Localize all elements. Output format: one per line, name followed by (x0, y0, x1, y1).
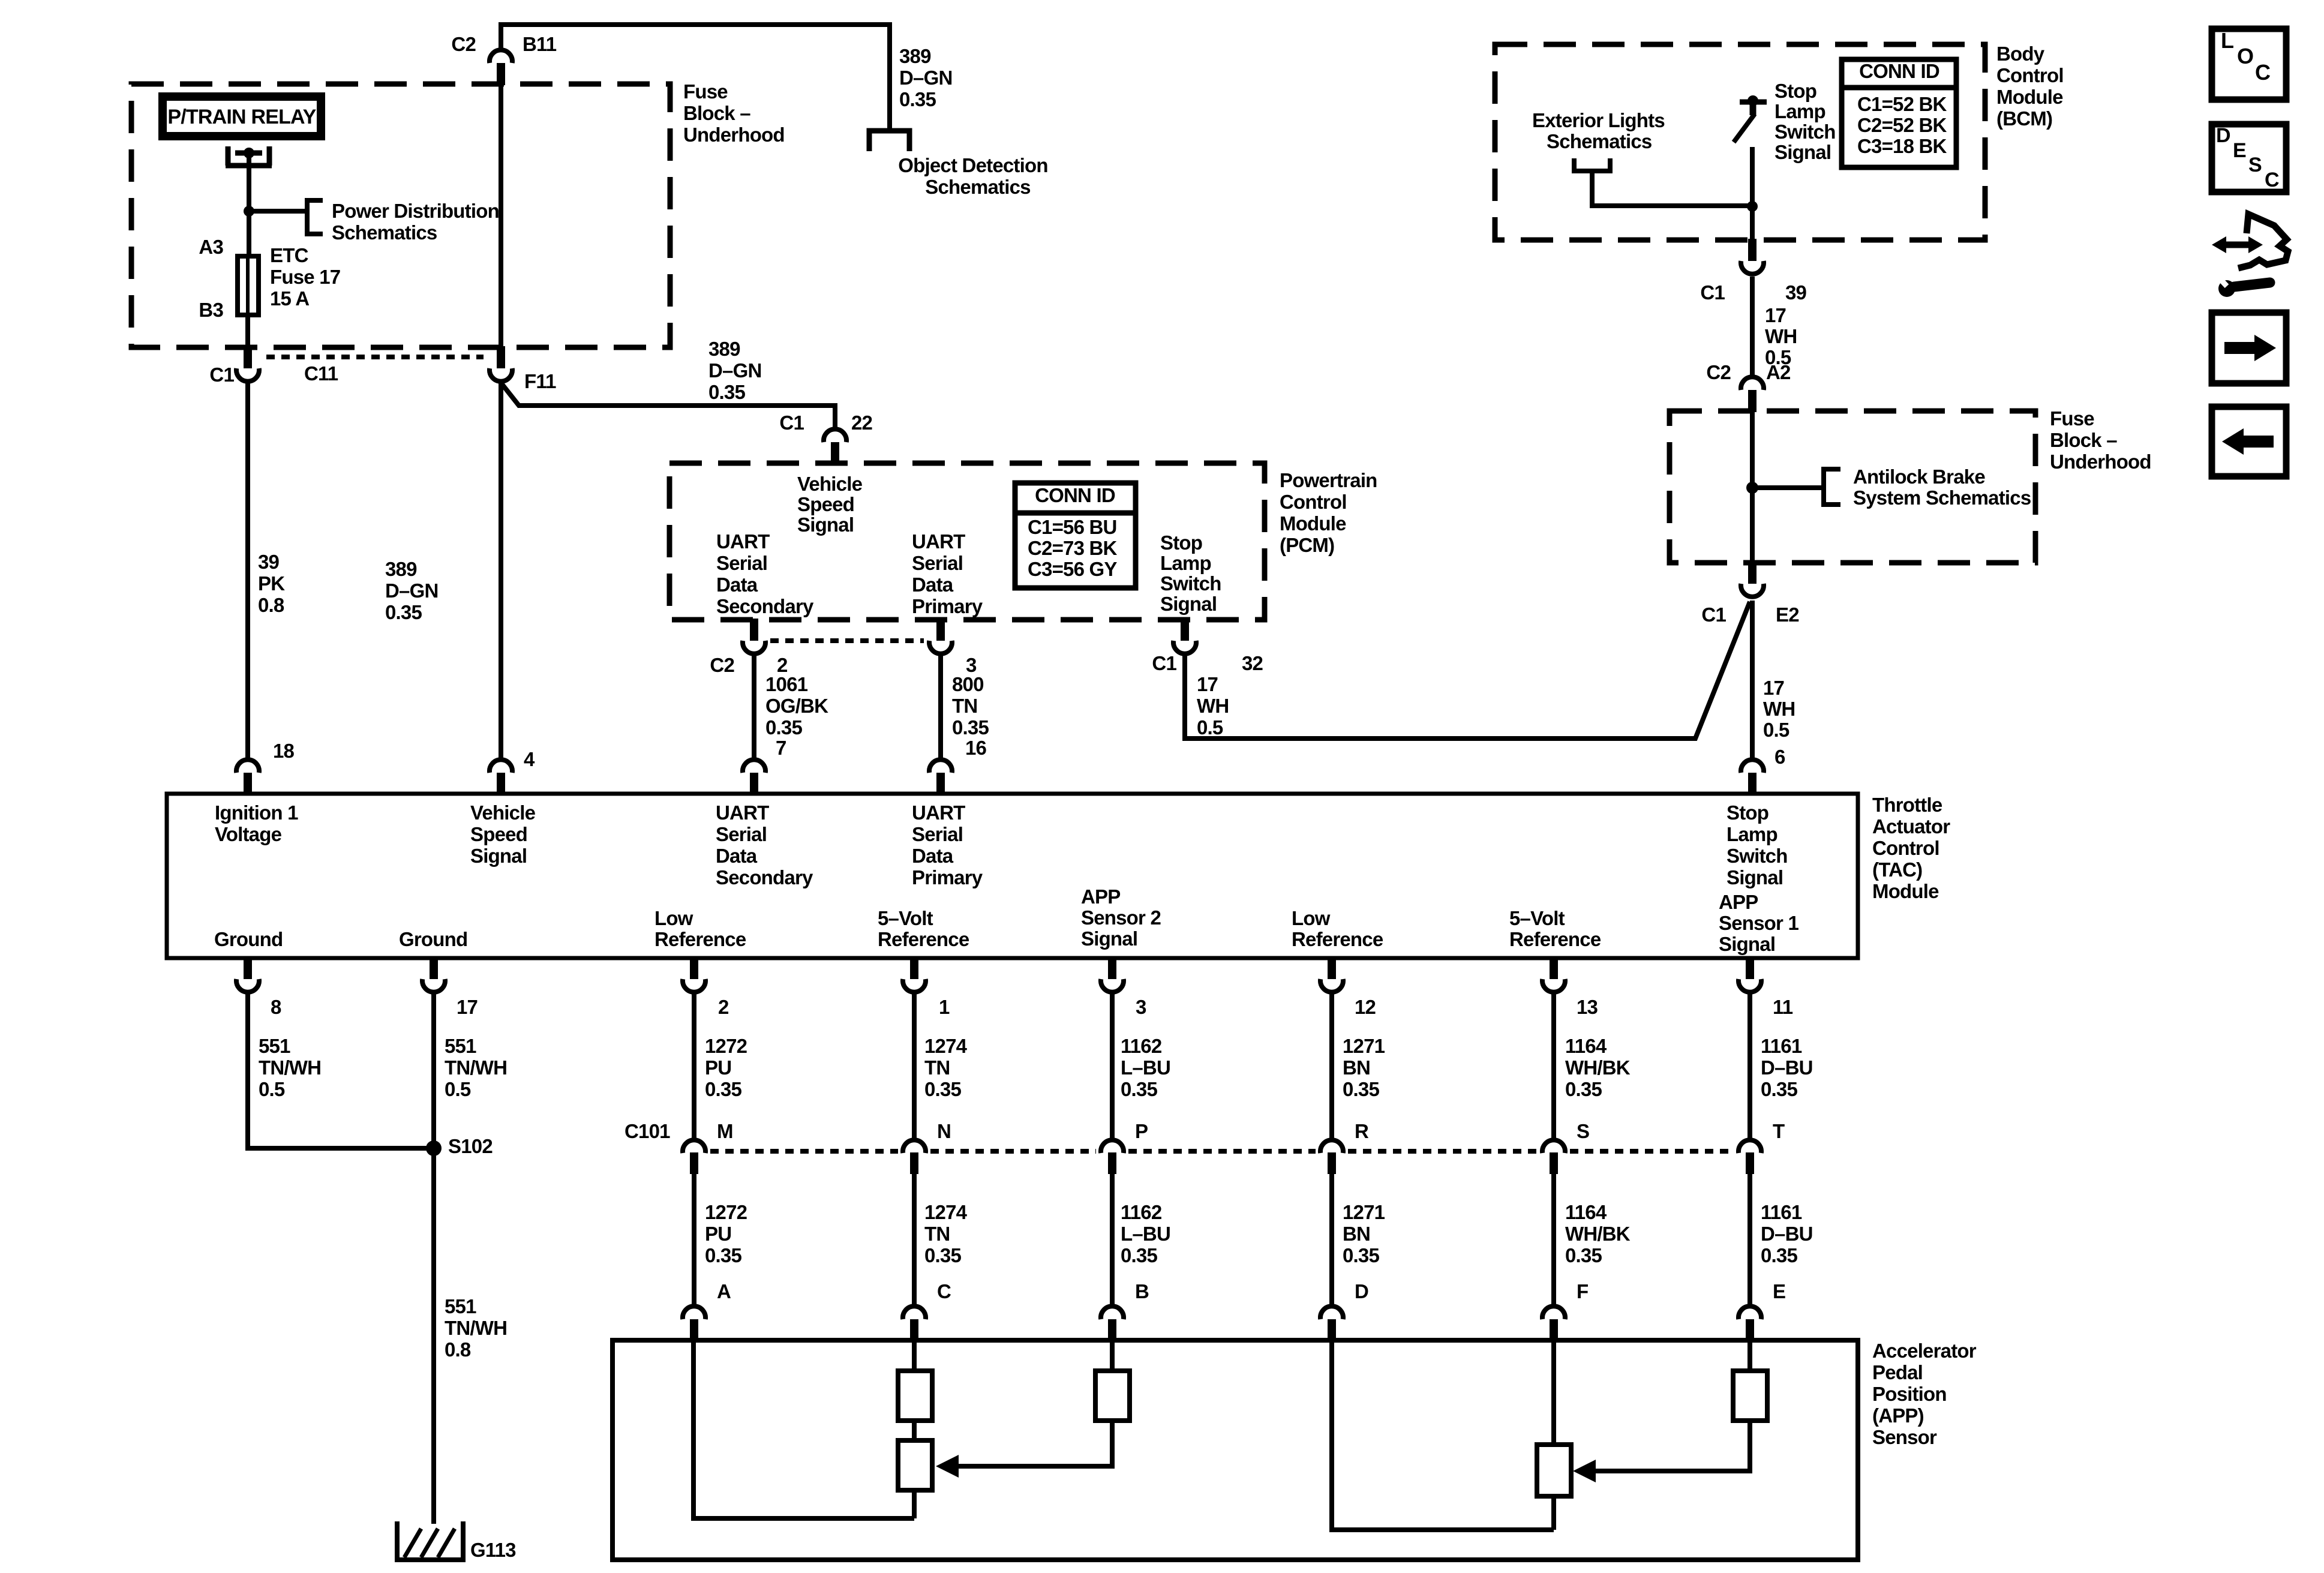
label APP Sensor 1 Signal (TAC) (1719, 891, 1798, 955)
wire - through fuse block (1750, 412, 1755, 564)
svg-text:Signal: Signal (1774, 141, 1831, 163)
svg-text:Reference: Reference (1292, 928, 1383, 950)
wire - low reference D to wiper 1 (1332, 1343, 1554, 1530)
svg-text:16: 16 (965, 737, 987, 759)
svg-text:UART: UART (912, 801, 965, 824)
svg-text:S102: S102 (448, 1135, 493, 1157)
table CONN ID (PCM) (1015, 483, 1136, 588)
svg-text:Low: Low (654, 907, 693, 929)
label UART Serial Data Primary (PCM) (912, 530, 983, 617)
svg-text:Signal: Signal (1160, 593, 1217, 615)
svg-text:S: S (2248, 154, 2262, 176)
svg-text:Underhood: Underhood (2050, 451, 2151, 473)
svg-text:Exterior Lights: Exterior Lights (1532, 109, 1665, 131)
svg-text:1162: 1162 (1121, 1201, 1162, 1223)
svg-text:System Schematics: System Schematics (1853, 487, 2031, 509)
label UART Serial Data Secondary (TAC) (716, 801, 813, 888)
svg-text:B: B (1135, 1280, 1149, 1302)
label Accelerator Pedal Position (APP) Sensor (1872, 1340, 1977, 1448)
svg-text:0.35: 0.35 (1343, 1244, 1379, 1266)
label Ground 2 (399, 928, 467, 950)
svg-text:Data: Data (912, 574, 954, 596)
label Object Detection Schematics (898, 154, 1047, 176)
body control module BCM dashed box (1495, 44, 1985, 240)
svg-text:BN: BN (1343, 1223, 1370, 1245)
label UART Serial Data Primary (TAC) (912, 801, 983, 888)
svg-text:Voltage: Voltage (215, 823, 282, 845)
svg-text:39: 39 (1785, 281, 1807, 304)
label Stop Lamp Switch Signal (TAC) (1727, 801, 1788, 888)
wire - 1274 TN lower segment col C (912, 1174, 917, 1305)
label A3 (199, 236, 223, 258)
svg-text:Module: Module (1280, 512, 1346, 535)
wire label 389 D-GN 0.35 (to PCM) (708, 338, 762, 403)
svg-text:Underhood: Underhood (683, 124, 785, 146)
svg-text:D: D (2216, 124, 2230, 147)
wire - tap to Power Distribution Schematics (249, 209, 307, 214)
pin 6 label (1774, 746, 1785, 768)
svg-text:Control: Control (1996, 64, 2064, 86)
connector cavity C at APP sensor (903, 1306, 926, 1319)
svg-text:Switch: Switch (1727, 845, 1788, 867)
svg-text:Data: Data (716, 574, 758, 596)
wire - 1161 D–BU lower segment col E (1747, 1174, 1752, 1305)
svg-text:Sensor 1: Sensor 1 (1719, 912, 1798, 934)
svg-text:P/TRAIN RELAY: P/TRAIN RELAY (167, 106, 316, 128)
svg-text:4: 4 (524, 748, 535, 770)
wire label 17 WH 0.5 (to TAC) (1763, 677, 1795, 741)
svg-text:Primary: Primary (912, 595, 983, 617)
wire - ground pin 17 down to G113 (431, 993, 436, 1524)
svg-text:D–GN: D–GN (708, 359, 762, 382)
label 5-Volt Reference (left) (878, 907, 969, 950)
powertrain control module PCM dashed box (669, 463, 1265, 620)
svg-text:APP: APP (1719, 891, 1758, 913)
svg-text:Ignition 1: Ignition 1 (215, 801, 298, 824)
svg-text:18: 18 (273, 740, 295, 762)
svg-text:15 A: 15 A (270, 287, 309, 310)
connector pin 3 below TAC (1108, 957, 1116, 979)
fuse block underhood (left) dashed box (131, 84, 670, 347)
label UART Serial Data Secondary (PCM) (716, 530, 814, 617)
relay K - P/TRAIN RELAY box (163, 97, 321, 136)
label Antilock Brake System Schematics (1853, 466, 2031, 509)
svg-text:0.35: 0.35 (1565, 1078, 1602, 1100)
splice S102 (426, 1140, 442, 1156)
svg-text:17: 17 (1765, 304, 1786, 326)
wire - exterior lights branch (1592, 171, 1752, 206)
connector C1/22 at PCM (824, 429, 846, 442)
wire - signal 1 wiper arrow (1595, 1421, 1750, 1471)
svg-text:TN/WH: TN/WH (445, 1317, 507, 1339)
svg-text:Signal: Signal (1719, 933, 1775, 955)
svg-text:Object Detection: Object Detection (898, 154, 1047, 176)
svg-text:0.35: 0.35 (952, 716, 989, 739)
icon LOC box (2212, 29, 2286, 100)
connector pin 4 at TAC (490, 760, 512, 773)
icon DESC box (2212, 124, 2286, 192)
svg-text:E2: E2 (1776, 604, 1799, 626)
svg-text:6: 6 (1774, 746, 1785, 768)
svg-text:0.35: 0.35 (705, 1078, 741, 1100)
svg-text:(BCM): (BCM) (1996, 107, 2052, 130)
svg-text:C1: C1 (209, 364, 234, 386)
svg-text:WH/BK: WH/BK (1565, 1056, 1631, 1079)
svg-text:Throttle: Throttle (1872, 794, 1942, 816)
svg-text:UART: UART (716, 530, 770, 553)
svg-text:Fuse: Fuse (2050, 407, 2094, 430)
svg-text:Fuse 17: Fuse 17 (270, 266, 340, 288)
svg-text:13: 13 (1577, 996, 1598, 1018)
connector pin 6 at TAC (1741, 760, 1764, 773)
svg-text:Primary: Primary (912, 866, 983, 888)
svg-text:UART: UART (716, 801, 769, 824)
wire - 1164 WH/BK lower segment col F (1551, 1174, 1556, 1305)
svg-text:Data: Data (716, 845, 758, 867)
svg-text:UART: UART (912, 530, 965, 553)
svg-text:Powertrain: Powertrain (1280, 469, 1377, 491)
icon connector-view double arrow (2222, 242, 2253, 248)
svg-text:7: 7 (776, 737, 786, 759)
svg-text:C101: C101 (624, 1120, 670, 1142)
svg-text:Sensor 2: Sensor 2 (1081, 906, 1161, 929)
svg-text:Speed: Speed (797, 493, 854, 515)
label Powertrain Control Module (PCM) (1280, 469, 1377, 556)
wire - F11 branch to PCM C1/22 (501, 383, 835, 428)
svg-text:L: L (2221, 28, 2233, 53)
svg-text:D–BU: D–BU (1761, 1223, 1813, 1245)
wire - 1272 PU lower segment col A (692, 1174, 696, 1305)
svg-text:1161: 1161 (1761, 1201, 1802, 1223)
wire - 1162 L–BU lower segment col B (1110, 1174, 1115, 1305)
svg-text:Serial: Serial (912, 552, 963, 574)
connector pin 8 below TAC (244, 957, 252, 979)
connector C1 pin 39 at BCM (1748, 239, 1756, 261)
svg-text:551: 551 (259, 1035, 290, 1057)
svg-text:PU: PU (705, 1223, 731, 1245)
wire label 551 TN/WH 0.8 (445, 1295, 507, 1361)
wire - fuse to connector C1/C11 (245, 315, 250, 349)
wire - relay to fuse (247, 153, 251, 256)
svg-text:1274: 1274 (924, 1201, 968, 1223)
connector cavity F at APP sensor (1542, 1306, 1565, 1319)
icon back arrow box (2212, 407, 2286, 476)
svg-text:C2: C2 (1706, 361, 1731, 383)
svg-text:1164: 1164 (1565, 1035, 1607, 1057)
connector C101 cavity R (1320, 1140, 1343, 1153)
connector pin 3 at PCM (936, 619, 945, 641)
svg-text:L–BU: L–BU (1121, 1056, 1170, 1079)
svg-text:Lamp: Lamp (1727, 823, 1777, 845)
connector pin 12 below TAC (1328, 957, 1336, 979)
svg-text:Signal: Signal (1727, 866, 1783, 888)
svg-text:C: C (2255, 60, 2271, 85)
svg-text:1161: 1161 (1761, 1035, 1802, 1057)
connector C101 cavity S (1542, 1140, 1565, 1153)
label Ignition 1 Voltage (215, 801, 298, 845)
label Fuse Block - Underhood (left) (683, 80, 785, 146)
svg-text:Lamp: Lamp (1160, 552, 1211, 574)
svg-text:O: O (2237, 44, 2253, 68)
wire label 551 TN/WH 0.5 (pin 8) (259, 1035, 321, 1100)
icon forward arrow box (2212, 313, 2286, 383)
svg-text:Antilock Brake: Antilock Brake (1853, 466, 1985, 488)
svg-text:Accelerator: Accelerator (1872, 1340, 1977, 1362)
label Exterior Lights Schematics (1532, 109, 1665, 131)
svg-text:Vehicle: Vehicle (797, 473, 863, 495)
svg-text:Stop: Stop (1160, 532, 1202, 554)
wire - resistor 2 to wiper 2 (912, 1421, 917, 1440)
svg-text:Module: Module (1872, 880, 1939, 902)
label Throttle Actuator Control (TAC) Module (1872, 794, 1950, 902)
svg-text:WH/BK: WH/BK (1565, 1223, 1631, 1245)
svg-text:551: 551 (445, 1035, 476, 1057)
svg-text:11: 11 (1773, 996, 1793, 1018)
svg-text:0.35: 0.35 (924, 1078, 961, 1100)
svg-text:TN: TN (924, 1056, 950, 1079)
svg-text:0.35: 0.35 (385, 601, 422, 623)
label Ground 1 (214, 928, 283, 950)
svg-text:WH: WH (1763, 698, 1795, 720)
wire - 389 D-GN inside fuse block and down to TAC pin 4 (499, 85, 503, 349)
svg-text:C2: C2 (451, 33, 476, 55)
node junction to power distribution tap (244, 206, 254, 217)
svg-text:Control: Control (1280, 491, 1347, 513)
svg-text:Ground: Ground (399, 928, 467, 950)
label B3 (199, 299, 223, 321)
svg-text:C2=73 BK: C2=73 BK (1028, 537, 1118, 559)
svg-text:A: A (717, 1280, 731, 1302)
switch SW - stop lamp switch (1740, 100, 1767, 105)
svg-text:Serial: Serial (716, 823, 767, 845)
svg-text:Switch: Switch (1160, 572, 1221, 595)
svg-text:OG/BK: OG/BK (765, 695, 828, 717)
svg-text:(PCM): (PCM) (1280, 534, 1334, 556)
label Power Distribution Schematics (332, 200, 499, 244)
svg-text:L–BU: L–BU (1121, 1223, 1170, 1245)
svg-text:Speed: Speed (470, 823, 527, 845)
connector pin 18 at TAC (236, 760, 259, 773)
svg-text:B11: B11 (523, 33, 557, 55)
wire - ground pin 8 to splice S102 (248, 993, 430, 1148)
connector F11 (497, 346, 505, 368)
svg-text:Module: Module (1996, 86, 2063, 108)
icon wrench (2234, 283, 2270, 287)
svg-text:Serial: Serial (716, 552, 767, 574)
svg-text:17: 17 (1763, 677, 1784, 699)
half-box bracket Power Distribution (307, 200, 323, 234)
svg-text:ETC: ETC (270, 244, 308, 266)
svg-text:Block –: Block – (683, 102, 750, 124)
connector pin 17 below TAC (430, 957, 438, 979)
connector pin 2 below TAC (690, 957, 698, 979)
svg-text:APP: APP (1081, 885, 1120, 908)
svg-text:N: N (937, 1120, 951, 1142)
svg-text:S: S (1577, 1120, 1589, 1142)
svg-text:1162: 1162 (1121, 1035, 1162, 1057)
svg-text:Stop: Stop (1727, 801, 1768, 824)
label Low Reference (right) (1292, 907, 1383, 950)
label ETC Fuse 17 15 A (270, 244, 340, 310)
connector cavity A at APP sensor (683, 1306, 705, 1319)
svg-text:E: E (2233, 139, 2246, 162)
svg-text:B3: B3 (199, 299, 223, 321)
connector C1/C11 (244, 346, 252, 368)
wire - 1164 WH/BK upper segment col S (1551, 993, 1556, 1139)
svg-text:E: E (1773, 1280, 1785, 1302)
svg-text:Block –: Block – (2050, 429, 2117, 451)
svg-text:1: 1 (939, 996, 950, 1018)
svg-text:0.35: 0.35 (1121, 1078, 1157, 1100)
svg-text:Stop: Stop (1774, 80, 1816, 102)
potentiometer wiper 1 element (1537, 1445, 1571, 1496)
svg-text:Low: Low (1292, 907, 1331, 929)
svg-text:0.35: 0.35 (765, 716, 802, 739)
connector C1/E2 (1748, 562, 1756, 584)
svg-text:C1=56 BU: C1=56 BU (1028, 516, 1117, 538)
wire label 39 PK 0.8 (258, 551, 285, 616)
connector pin 1 below TAC (910, 957, 918, 979)
resistor R2 fixed element (898, 1371, 932, 1421)
svg-text:1272: 1272 (705, 1035, 747, 1057)
node junction antilock tap (1746, 482, 1758, 494)
wire - 1271 BN upper segment col R (1329, 993, 1334, 1139)
wire label 389 D-GN 0.35 (to TAC) (385, 558, 439, 623)
svg-text:Reference: Reference (654, 928, 746, 950)
svg-text:CONN ID: CONN ID (1035, 484, 1115, 506)
svg-text:G113: G113 (470, 1539, 516, 1561)
svg-text:5–Volt: 5–Volt (878, 907, 933, 929)
pin 4 label (524, 748, 535, 770)
svg-text:Body: Body (1996, 43, 2045, 65)
label Vehicle Speed Signal (PCM) (797, 473, 863, 536)
pin 18 label (273, 740, 295, 762)
svg-text:Power Distribution: Power Distribution (332, 200, 499, 222)
svg-text:TN: TN (952, 695, 977, 717)
svg-text:0.5: 0.5 (445, 1078, 471, 1100)
wire label 551 TN/WH 0.5 (pin 17) (445, 1035, 507, 1100)
connector row dotted line C11-F11 (266, 355, 484, 359)
ground G113 (397, 1521, 463, 1560)
svg-text:Signal: Signal (1081, 927, 1137, 950)
svg-text:Sensor: Sensor (1872, 1426, 1937, 1448)
svg-text:0.5: 0.5 (1763, 719, 1789, 741)
svg-text:P: P (1135, 1120, 1148, 1142)
svg-text:Serial: Serial (912, 823, 963, 845)
svg-text:0.35: 0.35 (1343, 1078, 1379, 1100)
svg-text:0.35: 0.35 (1121, 1244, 1157, 1266)
svg-text:12: 12 (1355, 996, 1376, 1018)
connector C1 pin 32 at PCM (1181, 619, 1189, 641)
svg-text:BN: BN (1343, 1056, 1370, 1079)
svg-text:CONN ID: CONN ID (1859, 60, 1939, 82)
connector pin 16 at TAC (929, 760, 952, 773)
label C101 (624, 1120, 670, 1142)
svg-text:0.35: 0.35 (705, 1244, 741, 1266)
svg-text:M: M (717, 1120, 733, 1142)
svg-text:C2=52 BK: C2=52 BK (1857, 114, 1947, 136)
wire - 1274 TN upper segment col N (912, 993, 917, 1139)
svg-text:1271: 1271 (1343, 1035, 1385, 1057)
svg-text:WH: WH (1197, 695, 1229, 717)
svg-text:8: 8 (271, 996, 281, 1018)
wire - 17 WH 0.5 stop lamp from PCM to E2 junction (1185, 602, 1750, 739)
label Stop Lamp Switch Signal (PCM) (1160, 532, 1221, 615)
connector cavity E at APP sensor (1739, 1306, 1761, 1319)
svg-text:F11: F11 (524, 370, 556, 392)
wire label 389 D-GN 0.35 (object detection branch) (899, 45, 953, 110)
svg-text:Data: Data (912, 845, 954, 867)
label APP Sensor 2 Signal (1081, 885, 1161, 950)
wire - 39 PK 0.8 ignition feed (245, 383, 250, 758)
wire - 1272 PU upper segment col M (692, 993, 696, 1139)
svg-text:Pedal: Pedal (1872, 1361, 1923, 1383)
wire - switch to junction (1750, 147, 1755, 239)
svg-text:Reference: Reference (1509, 928, 1601, 950)
svg-text:TN: TN (924, 1223, 950, 1245)
svg-text:D: D (1355, 1280, 1368, 1302)
svg-text:Lamp: Lamp (1774, 100, 1825, 122)
svg-text:A2: A2 (1766, 361, 1791, 383)
connector C2 pin 2 at PCM (750, 619, 758, 641)
connector cavity B at APP sensor (1101, 1306, 1124, 1319)
fuse F - ETC Fuse 17 15 A (238, 256, 259, 315)
svg-text:1164: 1164 (1565, 1201, 1607, 1223)
svg-text:D–GN: D–GN (899, 67, 953, 89)
svg-text:0.35: 0.35 (1565, 1244, 1602, 1266)
connector C2/B11 (490, 50, 512, 63)
svg-text:1271: 1271 (1343, 1201, 1385, 1223)
throttle actuator control TAC module box (167, 794, 1858, 958)
svg-text:2: 2 (718, 996, 729, 1018)
svg-text:Position: Position (1872, 1383, 1947, 1405)
svg-text:Switch: Switch (1774, 121, 1836, 143)
svg-text:0.8: 0.8 (445, 1338, 471, 1361)
svg-text:Secondary: Secondary (716, 595, 814, 617)
wire - low reference A to wiper 2 (693, 1343, 914, 1518)
svg-text:32: 32 (1242, 652, 1263, 674)
svg-text:Actuator: Actuator (1872, 815, 1950, 837)
label Stop Lamp Switch Signal (BCM) (1774, 80, 1836, 163)
wire - 1271 BN lower segment col D (1329, 1174, 1334, 1305)
svg-text:C2: C2 (710, 654, 734, 676)
svg-text:D–BU: D–BU (1761, 1056, 1813, 1079)
svg-text:C1: C1 (1152, 652, 1176, 674)
svg-text:3: 3 (1136, 996, 1146, 1018)
svg-text:Ground: Ground (214, 928, 283, 950)
svg-text:F: F (1577, 1280, 1588, 1302)
svg-text:D–GN: D–GN (385, 580, 439, 602)
svg-text:PU: PU (705, 1056, 731, 1079)
accelerator pedal position APP sensor box (612, 1340, 1858, 1560)
wire - 5 volt reference F into wiper 1 (1551, 1343, 1556, 1445)
svg-text:0.35: 0.35 (899, 88, 936, 110)
svg-text:1061: 1061 (765, 673, 808, 695)
wire - top feed from fuse block B11 to object detection branch (501, 25, 890, 133)
table CONN ID (BCM) (1842, 59, 1956, 167)
svg-text:Control: Control (1872, 837, 1939, 859)
connector cavity D at APP sensor (1320, 1306, 1343, 1319)
label Fuse Block - Underhood (right) (2050, 407, 2151, 473)
pin 16 label (965, 737, 987, 759)
node - Object Detection Schematics half-box (869, 131, 909, 151)
node junction below switch (1747, 201, 1758, 212)
svg-text:Secondary: Secondary (716, 866, 813, 888)
svg-text:Reference: Reference (878, 928, 969, 950)
connector row C101 dashed line (710, 1149, 898, 1154)
icon connector-view outline (2238, 214, 2288, 268)
connector pin 7 at TAC (743, 760, 765, 773)
